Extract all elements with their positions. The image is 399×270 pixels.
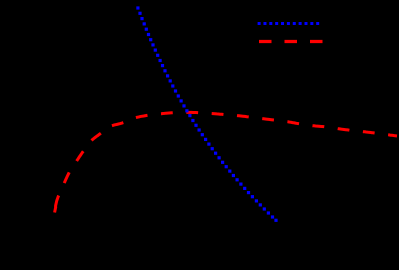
red dashed curve [55,112,398,213]
blue dotted curve [136,6,277,222]
legend: red dashed sample [259,40,323,43]
red dashed curve: start tip [55,207,56,213]
legend: blue dotted sample [258,22,320,25]
